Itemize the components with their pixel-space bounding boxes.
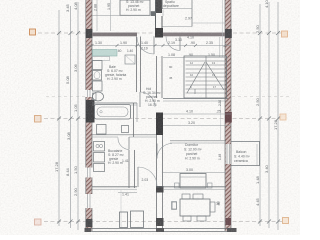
left exterior wall xyxy=(86,0,92,231)
tub room right wall xyxy=(134,103,138,137)
axis marker bottom-left xyxy=(35,219,42,225)
bedroom dim y172.5 xyxy=(163,168,226,173)
axis marker bottom-right xyxy=(283,218,289,224)
wardrobe end pier xyxy=(151,11,156,16)
axis dashed line mid xyxy=(44,118,280,120)
axis marker mid-right xyxy=(280,114,286,120)
left wall pier top xyxy=(86,29,93,38)
bedroom label Dormitor xyxy=(184,143,202,161)
Baie fixtures: toilet oval xyxy=(93,92,104,101)
axis marker top-right xyxy=(282,31,288,37)
small rect near central wall lower xyxy=(172,202,177,210)
Hol label xyxy=(143,87,161,103)
left wall pier mid xyxy=(86,100,95,123)
central wall pier at axis xyxy=(156,113,163,136)
central wall top section xyxy=(155,0,162,28)
left wall window gap 3 xyxy=(85,194,93,208)
living left dim line xyxy=(120,190,122,228)
top-left room label S:13.46 xyxy=(126,0,144,12)
short wall below kitchen xyxy=(118,192,137,194)
interior dim chain y125.5 xyxy=(163,121,231,126)
right dimension line 3 xyxy=(277,2,279,230)
axis dashed line mid upper xyxy=(46,96,86,98)
right wall balcony door gap xyxy=(226,144,231,164)
Baie fixtures: washer xyxy=(93,61,103,70)
right wall pier bottom maroon xyxy=(226,218,231,225)
small box below tub right xyxy=(122,126,129,133)
door arc from top wall xyxy=(137,36,154,54)
top-left room wardrobe/bed xyxy=(92,0,150,16)
central wall pier lower xyxy=(156,186,164,193)
storage door leaf+arc xyxy=(166,37,180,51)
top dimension chain y45 xyxy=(86,41,231,46)
bathtub xyxy=(95,105,131,120)
top horizontal wall y33 xyxy=(92,28,225,38)
top-right storage room partitions xyxy=(163,0,226,57)
Baie door arc xyxy=(140,92,155,107)
tick smudges right wall inner xyxy=(217,100,222,206)
washer below tub xyxy=(97,125,107,135)
Baie fixtures: sink xyxy=(93,71,102,81)
right wall pier mid maroon xyxy=(225,112,232,123)
right dimension line 2 xyxy=(268,2,270,228)
stair tread numbers xyxy=(190,61,217,89)
central wall lower section xyxy=(157,135,163,228)
right dimension line 1 xyxy=(259,4,261,226)
top-left interior dim lines xyxy=(94,0,112,31)
scan noise xyxy=(0,0,1,1)
kitchen label xyxy=(108,149,125,165)
central wall pier bottom xyxy=(156,218,164,226)
Baie right wall xyxy=(125,37,141,93)
left dimension line 1 xyxy=(58,10,60,226)
axis marker mid-left xyxy=(35,116,42,123)
balcony label xyxy=(234,150,251,163)
kitchen counter boxes xyxy=(94,142,105,172)
wall above tub y103 xyxy=(92,103,137,105)
tick marks on axes crossings xyxy=(57,31,280,224)
interior dim chain y114 xyxy=(163,110,231,115)
teal counter in Baie xyxy=(93,50,118,61)
axis dashed line top xyxy=(38,32,282,34)
top-right room label Spatiu xyxy=(163,0,179,8)
misc small interior marks xyxy=(163,10,172,210)
bedroom door arc xyxy=(157,144,172,159)
Baie label xyxy=(105,65,126,81)
stair bottom wall xyxy=(163,99,228,102)
left wall pier bottom xyxy=(86,219,93,227)
left dimension line 3 xyxy=(77,2,79,230)
chain ticks y45.5 xyxy=(91,44,227,47)
sub-dim texts above baie xyxy=(117,49,133,53)
stair top dimension chain y57 xyxy=(163,53,228,58)
axis dashed line bottom xyxy=(44,221,282,223)
bottom horizontal wall y187 xyxy=(92,187,226,189)
hol right thin line xyxy=(220,101,222,140)
dining table xyxy=(172,194,215,221)
left wall window gap 1 xyxy=(85,90,93,97)
left dimension line 2 xyxy=(70,6,72,228)
kitchen door leaf+arc xyxy=(118,137,129,150)
left dim texts xyxy=(54,1,78,196)
right dim texts xyxy=(255,0,278,206)
sofa squares living xyxy=(120,211,144,228)
central wall mid section (Baie/Hol) xyxy=(157,56,163,98)
bedroom top wall y141 xyxy=(170,141,226,143)
kitchen right wall lower xyxy=(129,150,135,188)
right exterior wall xyxy=(225,0,231,231)
axis marker top-left xyxy=(30,29,36,35)
Baie fixtures: wc box xyxy=(93,81,103,91)
left wall window gap 2 xyxy=(85,168,93,178)
kitchen top wall y135 xyxy=(92,135,156,137)
right wall pier top xyxy=(225,29,232,38)
bed xyxy=(175,174,213,189)
bottom exterior wall xyxy=(85,228,237,232)
balcony xyxy=(231,142,260,166)
door living leaf+arc xyxy=(138,167,157,187)
staircase xyxy=(184,56,227,98)
